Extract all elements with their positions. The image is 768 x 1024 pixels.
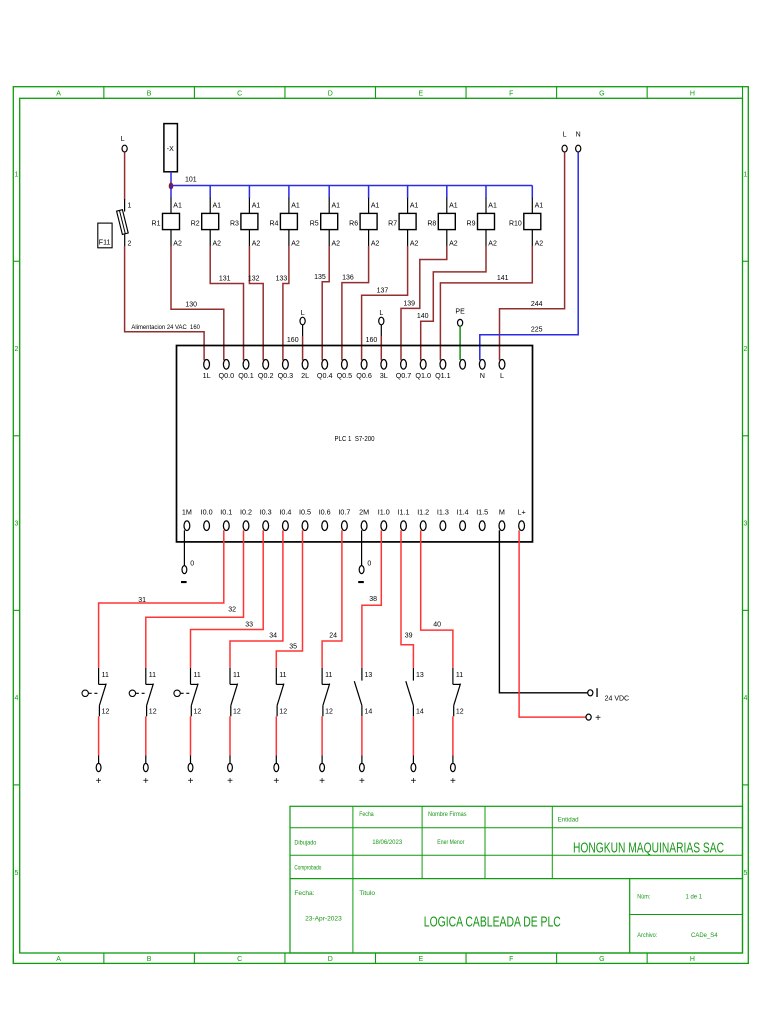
svg-text:11: 11: [233, 672, 240, 679]
svg-text:I0.5: I0.5: [299, 508, 311, 517]
svg-text:2M: 2M: [359, 508, 369, 517]
svg-text:160: 160: [287, 337, 299, 344]
svg-text:A2: A2: [291, 241, 300, 248]
wire 225 N to PLC N: [480, 152, 578, 360]
svg-text:2: 2: [128, 241, 132, 248]
svg-text:135: 135: [314, 274, 326, 281]
svg-text:12: 12: [194, 709, 202, 716]
svg-text:Q0.3: Q0.3: [278, 371, 294, 380]
wire 131 R2 to Q0.1: [210, 246, 243, 360]
L stub wire 160 at 3L: [366, 310, 384, 360]
svg-text:3L: 3L: [380, 371, 388, 380]
svg-text:I1.3: I1.3: [437, 508, 449, 517]
wire S4 to + terminal: [227, 716, 233, 787]
svg-text:31: 31: [138, 597, 146, 604]
svg-text:11: 11: [102, 672, 109, 679]
selector actuator of S1: [82, 690, 98, 696]
svg-text:H: H: [690, 956, 695, 963]
wire S7 to + terminal: [359, 716, 365, 787]
svg-text:+: +: [273, 776, 279, 787]
svg-text:A2: A2: [213, 241, 222, 248]
L stub wire 160 at 2L: [287, 310, 305, 360]
svg-text:A: A: [56, 956, 61, 963]
fuse disconnector F11: [117, 199, 132, 248]
svg-text:+: +: [319, 776, 325, 787]
svg-text:A1: A1: [173, 203, 182, 210]
24VDC minus terminal: [588, 688, 629, 702]
svg-text:HONGKUN MAQUINARIAS SAC: HONGKUN MAQUINARIAS SAC: [573, 840, 724, 857]
svg-text:CADe_S4: CADe_S4: [691, 932, 718, 939]
svg-text:R1: R1: [152, 220, 161, 227]
svg-text:4: 4: [743, 695, 747, 702]
terminal I0.0 (bottom): [201, 508, 213, 531]
PE terminal stub: [455, 309, 465, 361]
wire 31 I0.1 to switch S1: [99, 530, 224, 668]
wire 40 I1.2 to switch S9: [421, 530, 453, 668]
svg-text:Q0.0: Q0.0: [219, 371, 235, 380]
wire L to fuse: [124, 152, 126, 199]
svg-text:2: 2: [743, 346, 747, 353]
wire bus to R5 A1: [328, 186, 330, 214]
terminal I0.4 (bottom): [279, 508, 291, 531]
wire bus to R4 A1: [288, 186, 290, 214]
svg-text:139: 139: [403, 301, 415, 308]
svg-text:32: 32: [228, 607, 236, 614]
terminal L (top): [499, 360, 505, 380]
wire 101 bus: [171, 176, 532, 185]
wire S8 to + terminal: [410, 716, 416, 787]
svg-text:+: +: [450, 776, 456, 787]
svg-text:101: 101: [185, 176, 197, 183]
terminal I0.2 (bottom): [240, 508, 252, 531]
svg-text:5: 5: [743, 870, 747, 877]
relay coil R8: [427, 203, 457, 248]
wire bus to R3 A1: [248, 186, 250, 214]
terminal Q0.0 (top): [219, 360, 235, 380]
wire bus to R6 A1: [368, 186, 370, 214]
svg-text:13: 13: [365, 672, 373, 679]
terminal 2L (top): [301, 360, 309, 380]
terminal 3L (top): [380, 360, 388, 380]
0V reference at 1M: [181, 530, 194, 583]
terminal 1L (top): [203, 360, 211, 380]
wire S2 to + terminal: [143, 716, 149, 787]
svg-text:A1: A1: [535, 203, 544, 210]
svg-text:L: L: [500, 371, 504, 380]
svg-text:+: +: [143, 776, 149, 787]
svg-text:R9: R9: [467, 220, 476, 227]
terminal I1.1 (bottom): [398, 508, 410, 531]
terminal I1.2 (bottom): [417, 508, 429, 531]
svg-text:12: 12: [456, 709, 464, 716]
terminal I1.5 (bottom): [476, 508, 488, 531]
svg-text:I0.0: I0.0: [201, 508, 213, 517]
svg-text:1: 1: [743, 172, 747, 179]
relay coil R5: [310, 203, 340, 248]
svg-text:L: L: [121, 136, 125, 143]
wire 32 I0.2 to switch S2: [146, 530, 244, 668]
wire 137 R7 to Q0.6: [362, 246, 408, 360]
svg-text:39: 39: [405, 633, 413, 640]
svg-text:Alimentacion 24 VAC 160: Alimentacion 24 VAC 160: [131, 324, 200, 331]
svg-text:I0.6: I0.6: [319, 508, 331, 517]
svg-text:Q0.4: Q0.4: [317, 371, 333, 380]
wire 244 L to PLC L: [500, 152, 565, 360]
svg-text:131: 131: [219, 275, 231, 282]
terminal 1M (bottom): [182, 508, 192, 531]
svg-text:A2: A2: [449, 241, 458, 248]
svg-text:I1.4: I1.4: [457, 508, 469, 517]
wire 38 I1.0 to switch S7: [362, 530, 381, 668]
svg-text:I0.7: I0.7: [338, 508, 350, 517]
svg-text:133: 133: [276, 275, 288, 282]
wire L+ to 24VDC plus: [519, 530, 586, 717]
svg-text:L: L: [563, 132, 567, 139]
svg-text:A1: A1: [488, 203, 497, 210]
svg-text:C: C: [237, 90, 242, 97]
svg-text:R8: R8: [427, 220, 436, 227]
wire bus to R10 A1: [531, 186, 533, 214]
svg-text:L: L: [379, 310, 383, 317]
svg-text:1L: 1L: [203, 371, 211, 380]
svg-text:12: 12: [325, 709, 333, 716]
terminal Q0.6 (top): [356, 360, 372, 380]
wire bus to R8 A1: [446, 186, 448, 214]
switch S2 contact 11-12: [146, 668, 157, 716]
svg-text:140: 140: [417, 313, 429, 320]
svg-text:A: A: [56, 90, 61, 97]
svg-text:+: +: [227, 776, 233, 787]
svg-text:C: C: [237, 956, 242, 963]
relay coil R3: [230, 203, 260, 248]
svg-text:13: 13: [416, 672, 424, 679]
svg-text:0: 0: [190, 560, 194, 567]
relay coil R9: [467, 203, 497, 248]
terminal N (top): [479, 360, 485, 380]
svg-text:F: F: [509, 956, 513, 963]
wire 160 Alimentacion 24 VAC to 1L: [125, 246, 205, 360]
svg-text:225: 225: [531, 327, 543, 334]
PLC U1 S7-200 box: [177, 346, 533, 542]
svg-text:R3: R3: [230, 220, 239, 227]
svg-text:+: +: [359, 776, 365, 787]
0V reference at 2M: [358, 530, 371, 583]
svg-text:3: 3: [15, 521, 19, 528]
svg-text:H: H: [690, 90, 695, 97]
svg-text:A1: A1: [371, 203, 380, 210]
svg-text:35: 35: [289, 643, 297, 650]
svg-text:Q0.7: Q0.7: [396, 371, 412, 380]
terminal Q0.3 (top): [278, 360, 294, 380]
svg-text:Núm:: Núm:: [637, 894, 650, 901]
wire 139 R8 to Q0.7: [401, 246, 447, 360]
svg-text:12: 12: [102, 709, 110, 716]
svg-text:F: F: [509, 90, 513, 97]
svg-text:11: 11: [456, 672, 463, 679]
wire 141 R10 to Q1.1: [440, 246, 532, 360]
terminal I0.5 (bottom): [299, 508, 311, 531]
terminal I0.1 (bottom): [220, 508, 232, 531]
svg-text:24 VDC: 24 VDC: [605, 695, 630, 702]
svg-text:L+: L+: [517, 508, 525, 517]
svg-text:R5: R5: [310, 220, 319, 227]
svg-text:4: 4: [15, 695, 19, 702]
svg-text:I1.2: I1.2: [417, 508, 429, 517]
wire S1 to + terminal: [96, 716, 102, 787]
svg-text:A1: A1: [213, 203, 222, 210]
svg-text:34: 34: [269, 633, 277, 640]
svg-text:Q0.2: Q0.2: [258, 371, 274, 380]
terminal Q0.2 (top): [258, 360, 274, 380]
svg-text:A2: A2: [488, 241, 497, 248]
terminal L supply 24VAC: [121, 136, 128, 152]
svg-text:Nombre Firmas: Nombre Firmas: [428, 811, 467, 818]
terminal I0.6 (bottom): [319, 508, 331, 531]
terminal 2M (bottom): [359, 508, 369, 531]
svg-text:14: 14: [365, 709, 373, 716]
svg-text:Q0.6: Q0.6: [356, 371, 372, 380]
terminal Q0.7 (top): [396, 360, 412, 380]
terminal L line: [562, 132, 567, 152]
svg-text:+: +: [410, 776, 416, 787]
terminal Q0.1 (top): [238, 360, 254, 380]
svg-text:132: 132: [248, 275, 260, 282]
terminal L+ (bottom): [517, 508, 525, 531]
svg-text:LOGICA CABLEADA DE PLC: LOGICA CABLEADA DE PLC: [424, 914, 561, 930]
svg-text:G: G: [599, 90, 604, 97]
svg-text:F11: F11: [99, 240, 111, 247]
wire 34 I0.4 to switch S4: [230, 530, 283, 668]
svg-text:L: L: [301, 310, 305, 317]
svg-text:D: D: [328, 90, 333, 97]
svg-text:5: 5: [15, 870, 19, 877]
svg-text:33: 33: [245, 621, 253, 628]
svg-text:I1.1: I1.1: [398, 508, 410, 517]
wire bus to R9 A1: [485, 186, 487, 214]
terminal I1.4 (bottom): [457, 508, 469, 531]
wire 33 I0.3 to switch S3: [191, 530, 264, 668]
svg-text:+: +: [188, 776, 194, 787]
svg-text:Fecha: Fecha: [359, 811, 374, 818]
svg-text:1M: 1M: [182, 508, 192, 517]
terminal Q1.1 (top): [435, 360, 451, 380]
svg-text:24: 24: [329, 633, 337, 640]
svg-text:A1: A1: [449, 203, 458, 210]
svg-text:2: 2: [15, 346, 19, 353]
svg-text:R4: R4: [269, 220, 278, 227]
terminal Q0.4 (top): [317, 360, 333, 380]
wire 140 R9 to Q1.0: [417, 246, 486, 360]
svg-text:Ener Menor: Ener Menor: [437, 839, 465, 846]
switch S1 contact 11-12: [99, 668, 110, 716]
terminal I0.3 (bottom): [260, 508, 272, 531]
wire M to 24VDC minus: [499, 530, 587, 693]
relay coil R7: [388, 203, 418, 248]
wire S5 to + terminal: [273, 716, 279, 787]
wire bus to R7 A1: [407, 186, 409, 214]
wire 130 R1 to Q0.0: [171, 246, 224, 360]
switch S4 contact 11-12: [230, 668, 241, 716]
svg-text:I0.1: I0.1: [220, 508, 232, 517]
svg-text:141: 141: [497, 275, 509, 282]
svg-text:11: 11: [279, 672, 286, 679]
svg-text:M: M: [499, 508, 505, 517]
wire -X to node: [170, 172, 172, 186]
wire 35 I0.5 to switch S5: [276, 530, 302, 668]
svg-text:A2: A2: [173, 241, 182, 248]
svg-text:18/06/2023: 18/06/2023: [372, 839, 402, 846]
switch S5 contact 11-12: [276, 668, 287, 716]
svg-text:11: 11: [149, 672, 156, 679]
svg-text:1: 1: [15, 172, 19, 179]
wire 132 R3 to Q0.2: [248, 246, 263, 360]
terminal I0.7 (bottom): [338, 508, 350, 531]
svg-text:40: 40: [433, 622, 441, 629]
svg-text:R6: R6: [349, 220, 358, 227]
svg-text:R7: R7: [388, 220, 397, 227]
svg-text:12: 12: [233, 709, 241, 716]
svg-text:Entidad: Entidad: [558, 817, 579, 824]
wire S6 to + terminal: [319, 716, 325, 787]
svg-text:Q1.0: Q1.0: [415, 371, 431, 380]
svg-text:E: E: [418, 90, 423, 97]
terminal PE (top): [460, 360, 466, 370]
svg-text:A1: A1: [332, 203, 341, 210]
svg-text:130: 130: [185, 301, 197, 308]
svg-text:137: 137: [377, 288, 389, 295]
svg-text:244: 244: [531, 301, 543, 308]
relay coil R10: [509, 203, 543, 248]
svg-text:Fecha:: Fecha:: [294, 890, 314, 897]
terminal block -X: [164, 124, 178, 172]
wire bus to R2 A1: [209, 186, 211, 214]
svg-text:A2: A2: [535, 241, 544, 248]
title block: [290, 806, 743, 953]
switch S9 contact 11-12: [453, 668, 464, 716]
terminal Q1.0 (top): [415, 360, 431, 380]
wire bus to R1 A1: [170, 186, 172, 214]
svg-text:A2: A2: [252, 241, 261, 248]
terminal M (bottom): [499, 508, 505, 531]
svg-text:I1.5: I1.5: [476, 508, 488, 517]
designator box F11: [98, 223, 112, 248]
svg-text:3: 3: [743, 521, 747, 528]
svg-text:A2: A2: [371, 241, 380, 248]
wire 39 I1.1 to switch S8: [401, 530, 413, 668]
svg-text:N: N: [576, 132, 581, 139]
terminal Q0.5 (top): [337, 360, 353, 380]
svg-text:+: +: [595, 713, 601, 724]
svg-text:38: 38: [369, 596, 377, 603]
svg-text:-X: -X: [167, 146, 174, 153]
selector actuator of S3: [174, 690, 190, 696]
svg-text:A1: A1: [291, 203, 300, 210]
wire 136 R6 to Q0.5: [342, 246, 369, 360]
svg-text:Comprobado: Comprobado: [294, 864, 321, 871]
selector actuator of S2: [129, 690, 145, 696]
svg-text:+: +: [96, 776, 102, 787]
svg-text:B: B: [147, 956, 152, 963]
wire 135 R5 to Q0.4: [314, 246, 329, 360]
switch S3 contact 11-12: [191, 668, 202, 716]
node junction 101: [169, 183, 174, 190]
svg-text:1: 1: [128, 203, 132, 210]
svg-text:Titulo: Titulo: [359, 890, 375, 897]
relay coil R2: [191, 203, 221, 248]
svg-text:Q0.5: Q0.5: [337, 371, 353, 380]
svg-text:I0.2: I0.2: [240, 508, 252, 517]
svg-text:A2: A2: [410, 241, 419, 248]
switch S8 contact 13-14: [406, 668, 424, 716]
relay coil R4: [269, 203, 299, 248]
svg-text:23-Apr-2023: 23-Apr-2023: [305, 916, 342, 923]
wire 24 I0.7 to switch S6: [322, 530, 342, 668]
svg-text:E: E: [418, 956, 423, 963]
svg-text:Dibujado: Dibujado: [294, 840, 316, 847]
terminal I1.0 (bottom): [378, 508, 390, 531]
svg-text:12: 12: [149, 709, 157, 716]
svg-text:D: D: [328, 956, 333, 963]
svg-text:A1: A1: [410, 203, 419, 210]
svg-text:R2: R2: [191, 220, 200, 227]
wire 133 R4 to Q0.3: [276, 246, 289, 360]
switch S6 contact 11-12: [322, 668, 333, 716]
svg-text:136: 136: [342, 274, 354, 281]
svg-text:A2: A2: [332, 241, 341, 248]
svg-text:PE: PE: [455, 309, 465, 316]
svg-text:12: 12: [279, 709, 287, 716]
relay coil R6: [349, 203, 379, 248]
svg-text:PLC 1 S7-200: PLC 1 S7-200: [335, 434, 375, 443]
svg-text:Q0.1: Q0.1: [238, 371, 254, 380]
switch S7 contact 13-14: [354, 668, 372, 716]
terminal N neutral: [576, 132, 581, 152]
title block texts: [294, 811, 724, 939]
svg-text:11: 11: [194, 672, 201, 679]
svg-text:1 de 1: 1 de 1: [686, 894, 703, 901]
svg-text:G: G: [599, 956, 604, 963]
svg-text:160: 160: [366, 337, 378, 344]
relay coil R1: [152, 203, 182, 248]
svg-text:I0.4: I0.4: [279, 508, 291, 517]
svg-text:I0.3: I0.3: [260, 508, 272, 517]
svg-text:R10: R10: [509, 220, 522, 227]
wire S3 to + terminal: [188, 716, 194, 787]
svg-text:Archivo:: Archivo:: [637, 932, 657, 939]
svg-text:0: 0: [367, 560, 371, 567]
terminal I1.3 (bottom): [437, 508, 449, 531]
wire S9 to + terminal: [450, 716, 456, 787]
svg-text:14: 14: [416, 709, 424, 716]
svg-text:2L: 2L: [301, 371, 309, 380]
svg-text:11: 11: [325, 672, 332, 679]
svg-text:N: N: [480, 371, 485, 380]
svg-text:I1.0: I1.0: [378, 508, 390, 517]
svg-text:Q1.1: Q1.1: [435, 371, 451, 380]
svg-text:B: B: [147, 90, 152, 97]
svg-text:A1: A1: [252, 203, 261, 210]
24VDC plus terminal: [586, 713, 601, 724]
